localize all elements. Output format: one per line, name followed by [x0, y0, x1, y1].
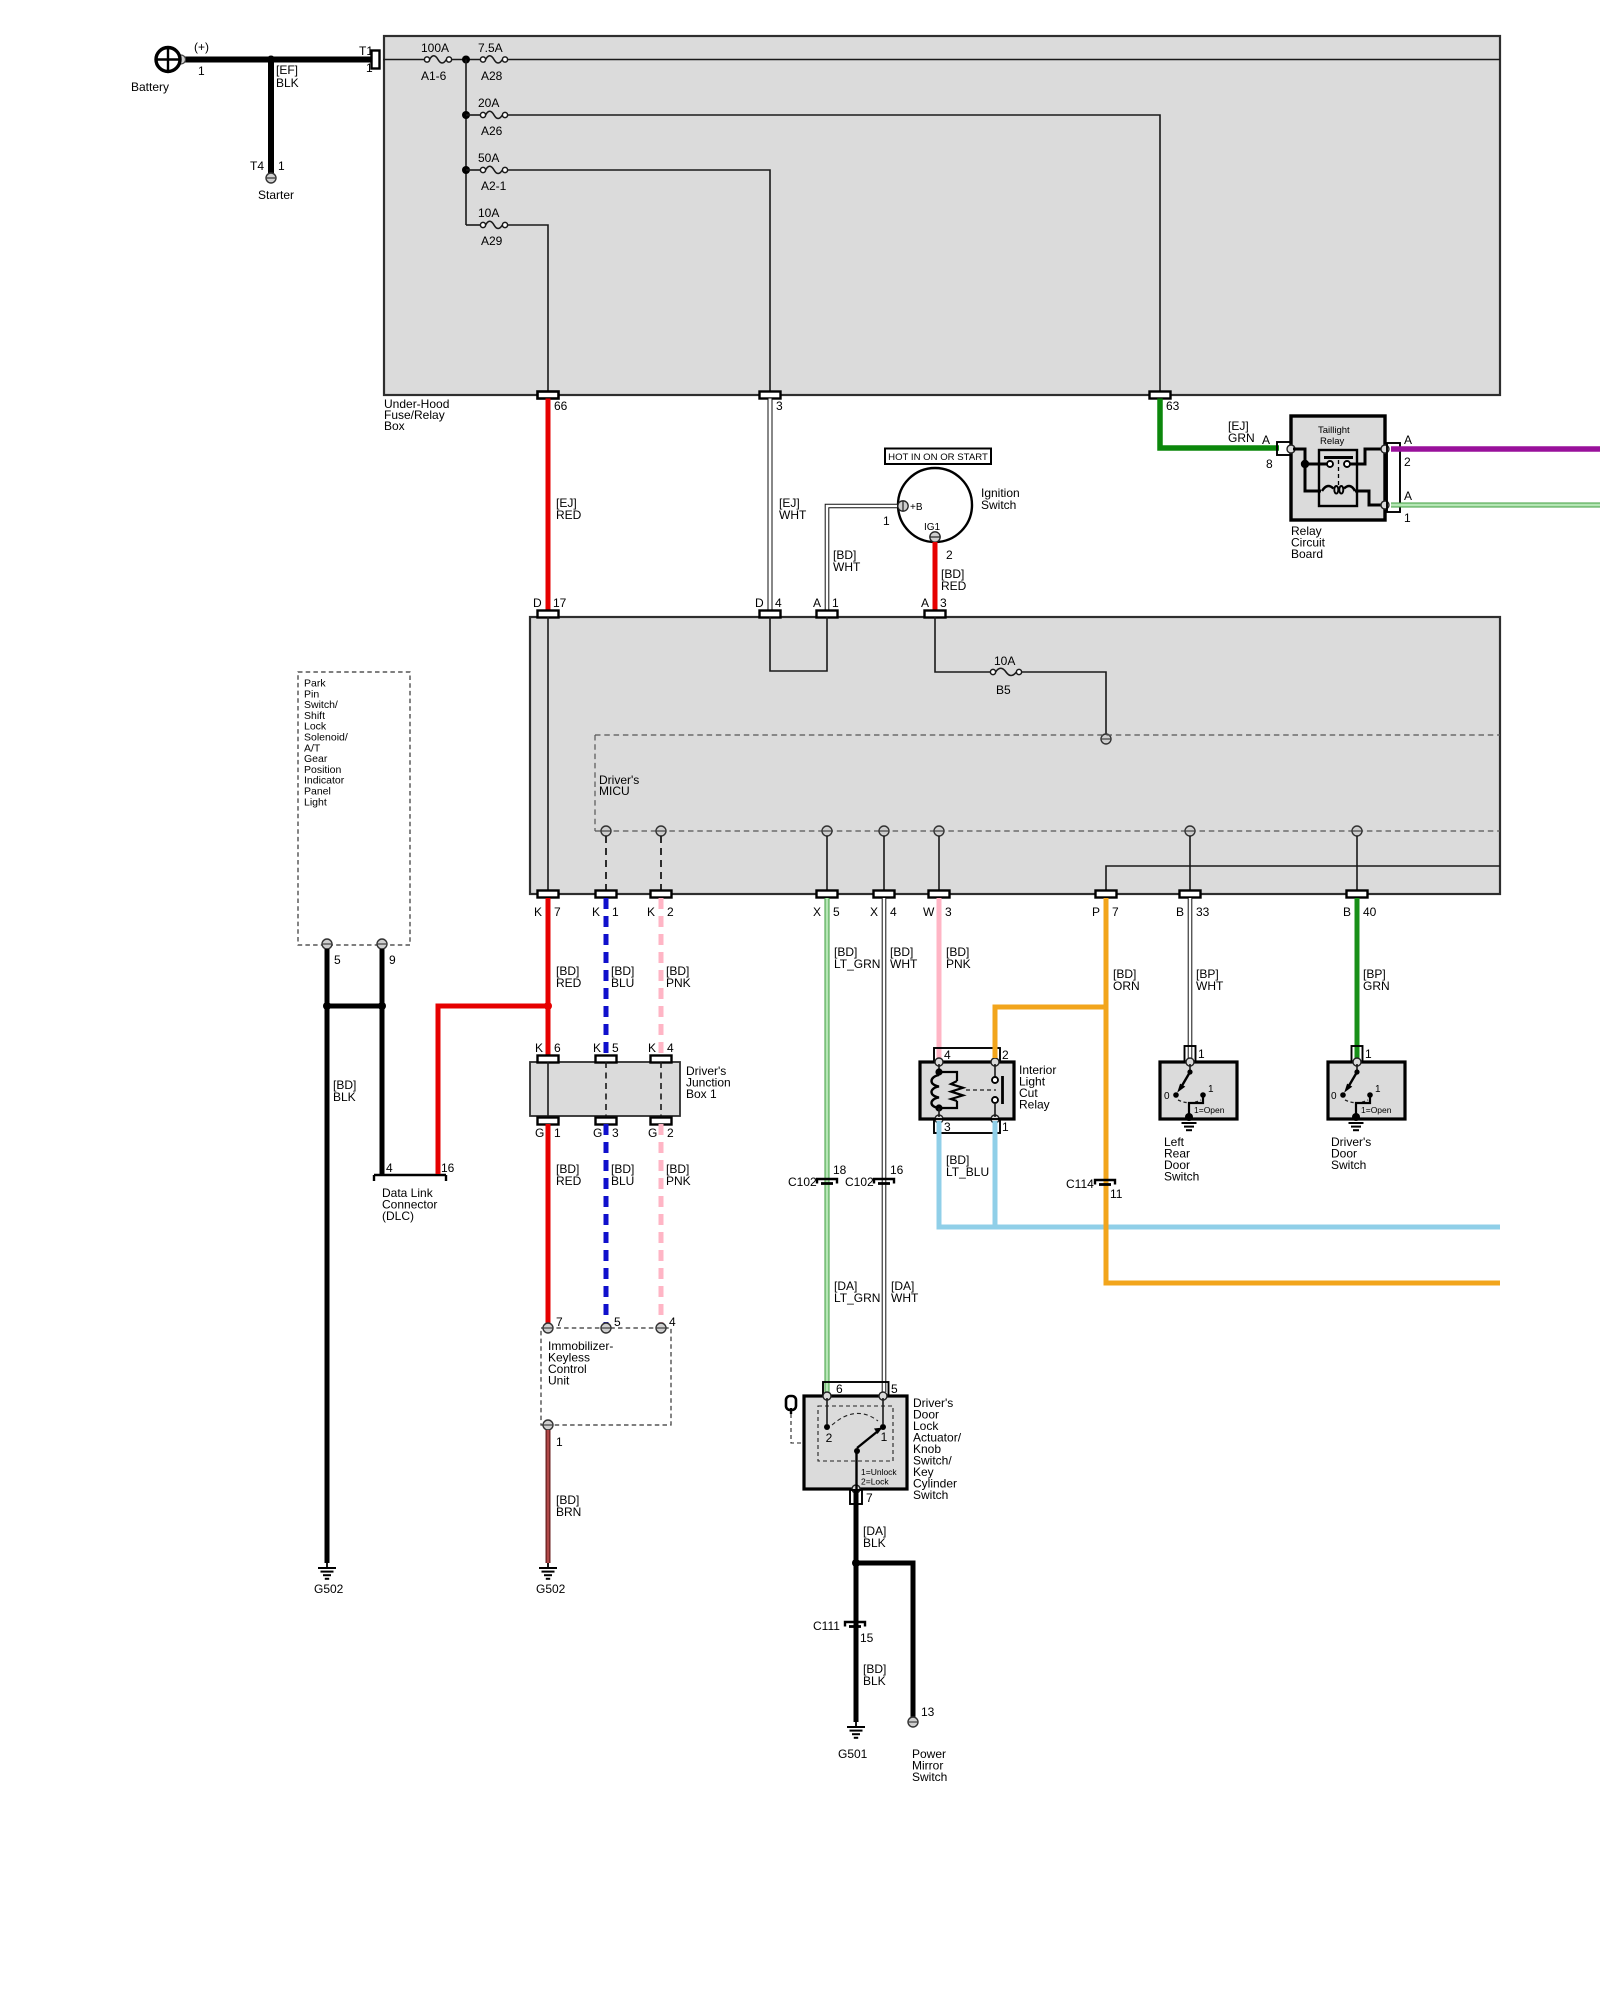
fuse 7.5A A28: [478, 41, 508, 83]
svg-text:(DLC): (DLC): [382, 1209, 414, 1223]
svg-text:2: 2: [1002, 1048, 1009, 1062]
relay output terminals: [1381, 445, 1389, 453]
svg-text:5: 5: [614, 1315, 621, 1329]
svg-text:7: 7: [866, 1491, 873, 1505]
fuse 20A A26: [466, 96, 508, 138]
terminal B33: [1185, 826, 1195, 836]
svg-text:1: 1: [1198, 1047, 1205, 1061]
wire [BD] BRN to G502: [548, 1430, 581, 1563]
svg-text:P: P: [1092, 905, 1100, 919]
fuse 10A A29: [466, 206, 508, 248]
svg-text:B: B: [1343, 905, 1351, 919]
svg-text:C102: C102: [788, 1175, 817, 1189]
svg-text:K: K: [592, 905, 600, 919]
svg-text:0: 0: [1164, 1091, 1170, 1102]
svg-text:WHT: WHT: [1196, 979, 1224, 993]
svg-text:BLK: BLK: [863, 1674, 886, 1688]
svg-text:ORN: ORN: [1113, 979, 1140, 993]
svg-text:PNK: PNK: [946, 957, 971, 971]
svg-text:LT_BLU: LT_BLU: [946, 1165, 989, 1179]
svg-text:1: 1: [554, 1126, 561, 1140]
wire [BD] ORN P7: [995, 898, 1500, 1283]
svg-text:G: G: [648, 1126, 657, 1140]
connector K1: [592, 891, 619, 920]
svg-text:3: 3: [944, 1120, 951, 1134]
junction box internal wires: [547, 1062, 549, 1116]
connector bracket A8: [1277, 442, 1291, 455]
svg-text:B: B: [1176, 905, 1184, 919]
svg-text:C111: C111: [813, 1619, 840, 1633]
fuse 10A B5: [990, 654, 1021, 697]
svg-text:1: 1: [1365, 1047, 1372, 1061]
svg-text:BLK: BLK: [863, 1536, 886, 1550]
knob switch contacts: [824, 1398, 888, 1445]
terminal on MICU boundary: [1101, 734, 1111, 744]
wire LT_BLU relay pin1: [993, 1121, 998, 1227]
wire [BD] LT_BLU relay pin3: [939, 1121, 1500, 1227]
svg-text:Board: Board: [1291, 547, 1323, 561]
svg-text:A26: A26: [481, 124, 503, 138]
svg-text:7: 7: [556, 1315, 563, 1329]
svg-text:66: 66: [554, 399, 568, 413]
fuse 50A A2-1: [466, 151, 508, 193]
connector G3: [593, 1118, 619, 1141]
svg-text:15: 15: [860, 1631, 874, 1645]
connector T1: [359, 44, 380, 75]
MICU internal dashed boundary: [595, 735, 1500, 831]
internal wire D17-K7: [547, 617, 549, 891]
svg-text:WHT: WHT: [833, 560, 861, 574]
svg-text:G502: G502: [314, 1582, 344, 1596]
svg-text:MICU: MICU: [599, 784, 630, 798]
svg-text:7: 7: [1112, 905, 1119, 919]
svg-text:RED: RED: [941, 579, 967, 593]
svg-text:10A: 10A: [994, 654, 1015, 668]
svg-text:K: K: [593, 1041, 601, 1055]
svg-text:Starter: Starter: [258, 188, 294, 202]
park pin switch / shift lock solenoid box: [298, 672, 410, 945]
data link connector DLC: [374, 1161, 455, 1223]
wire [DA] BLK: [856, 1489, 886, 1563]
wire [EJ] WHT fuse 3 to D4: [770, 399, 807, 612]
inline connector C111: [813, 1619, 874, 1645]
svg-text:Switch: Switch: [981, 498, 1016, 512]
connector X4: [870, 891, 897, 920]
connector K7: [534, 891, 561, 920]
svg-text:RED: RED: [556, 976, 582, 990]
svg-text:WHT: WHT: [779, 508, 807, 522]
svg-text:4: 4: [669, 1315, 676, 1329]
svg-text:4: 4: [667, 1041, 674, 1055]
internal wire to X5: [826, 836, 828, 891]
svg-text:16: 16: [890, 1163, 904, 1177]
svg-text:Relay: Relay: [1320, 436, 1345, 447]
svg-text:40: 40: [1363, 905, 1377, 919]
relay pin terminals: [935, 1058, 943, 1066]
svg-text:C114: C114: [1066, 1177, 1094, 1191]
door lock actuator connector 6/5: [823, 1382, 898, 1396]
driver's junction box 1: [530, 1062, 731, 1116]
ground G502: [314, 1563, 344, 1596]
ground at left rear door switch: [1164, 1123, 1199, 1184]
svg-text:6: 6: [554, 1041, 561, 1055]
driver's MICU box: [530, 617, 1500, 894]
relay switch contacts: [992, 1064, 1003, 1117]
svg-text:Switch: Switch: [1164, 1170, 1199, 1184]
connector A3: [921, 596, 947, 618]
wire [BD] WHT X4 down: [884, 898, 919, 1392]
svg-text:K: K: [648, 1041, 656, 1055]
connector A1: [813, 596, 839, 618]
terminal +B: [883, 501, 923, 528]
driver's door lock actuator box: [804, 1396, 962, 1502]
svg-text:7.5A: 7.5A: [478, 41, 503, 55]
ignition switch: [898, 468, 1020, 542]
svg-text:Light: Light: [304, 796, 327, 808]
relay coil: [1322, 486, 1355, 494]
svg-text:K: K: [647, 905, 655, 919]
terminal W3: [934, 826, 944, 836]
svg-text:2: 2: [826, 1431, 833, 1445]
svg-text:GRN: GRN: [1363, 979, 1390, 993]
junction dot: [1301, 460, 1309, 468]
internal wire to K1 dashed: [605, 836, 607, 891]
wire [EF] BLK to starter: [271, 60, 299, 174]
svg-text:PNK: PNK: [666, 1174, 691, 1188]
battery B+ feed wire: [180, 57, 375, 63]
svg-text:2: 2: [1404, 455, 1411, 469]
svg-text:BLK: BLK: [333, 1090, 356, 1104]
wire [BD] PNK K2 to K4: [661, 898, 691, 1056]
wire 10A to exit 66: [508, 225, 548, 392]
svg-text:Box: Box: [384, 419, 405, 433]
svg-text:PNK: PNK: [666, 976, 691, 990]
wire [BD] RED branch to DLC 16: [438, 1006, 548, 1174]
inline connector C114: [1066, 1177, 1123, 1201]
terminal T4 starter: [250, 159, 294, 202]
svg-text:5: 5: [334, 953, 341, 967]
wire B5 to MICU logic: [1022, 672, 1106, 734]
key cylinder symbol: [786, 1396, 804, 1443]
wire [BD] BLK pin5 to G502: [327, 949, 356, 1563]
svg-text:1=Open: 1=Open: [1194, 1105, 1225, 1115]
svg-text:T4: T4: [250, 159, 264, 173]
svg-text:IG1: IG1: [924, 522, 941, 533]
svg-text:1: 1: [881, 1430, 888, 1444]
svg-text:3: 3: [776, 399, 783, 413]
svg-text:WHT: WHT: [891, 1291, 919, 1305]
HOT IN ON OR START tag: [885, 449, 991, 465]
svg-text:16: 16: [441, 1161, 455, 1175]
svg-text:13: 13: [921, 1705, 935, 1719]
svg-text:20A: 20A: [478, 96, 499, 110]
relay coil assembly: [932, 1064, 997, 1117]
svg-text:G502: G502: [536, 1582, 566, 1596]
svg-text:6: 6: [836, 1382, 843, 1396]
svg-text:5: 5: [833, 905, 840, 919]
wire pin9 to DLC: [380, 949, 385, 1174]
terminal K2: [656, 826, 666, 836]
svg-text:K: K: [534, 905, 542, 919]
svg-text:1: 1: [1002, 1120, 1009, 1134]
connector D4: [755, 596, 782, 618]
svg-text:RED: RED: [556, 1174, 582, 1188]
ground G502: [536, 1563, 566, 1596]
svg-text:Taillight: Taillight: [1318, 425, 1350, 436]
under-hood fuse/relay box: [384, 36, 1500, 395]
svg-text:GRN: GRN: [1228, 431, 1255, 445]
wire [BD] RED K7 to K6: [548, 898, 582, 1056]
inline connector C102 pin18: [788, 1163, 847, 1189]
svg-text:X: X: [813, 905, 821, 919]
svg-text:2: 2: [667, 905, 674, 919]
svg-text:W: W: [923, 905, 935, 919]
interior light cut relay connector bottom: [934, 1119, 1009, 1134]
immobilizer-keyless control unit: [541, 1328, 671, 1425]
svg-text:100A: 100A: [421, 41, 449, 55]
connector pin 66: [538, 392, 568, 414]
wire: [452, 59, 481, 61]
terminal B40: [1352, 826, 1362, 836]
connector W3: [923, 891, 952, 920]
wire [EJ] GRN fuse 63 to relay board A8: [1160, 399, 1279, 472]
svg-text:A28: A28: [481, 69, 503, 83]
relay circuit board: [1291, 416, 1385, 561]
svg-text:5: 5: [891, 1382, 898, 1396]
internal wire to W3: [938, 836, 940, 891]
svg-text:2: 2: [667, 1126, 674, 1140]
relay input terminal A8: [1287, 445, 1295, 453]
svg-text:BRN: BRN: [556, 1505, 581, 1519]
wire [EJ] RED fuse 66 to D17: [548, 399, 582, 612]
svg-text:63: 63: [1166, 399, 1180, 413]
svg-text:B5: B5: [996, 683, 1011, 697]
svg-text:8: 8: [1266, 457, 1273, 471]
svg-text:Switch: Switch: [912, 1770, 947, 1784]
interior light cut relay connector top: [934, 1048, 1009, 1062]
svg-text:A1-6: A1-6: [421, 69, 447, 83]
wire A1 light green: [1391, 503, 1600, 508]
wire A2 purple: [1391, 446, 1600, 452]
svg-text:BLU: BLU: [611, 976, 634, 990]
wire branch to power mirror switch: [856, 1563, 913, 1717]
svg-text:1=Open: 1=Open: [1361, 1105, 1392, 1115]
terminal IG1: [924, 522, 953, 562]
svg-text:10A: 10A: [478, 206, 499, 220]
wire [BD] BLU K1 to K5: [606, 898, 634, 1056]
driver's door switch: [1328, 1058, 1405, 1121]
svg-text:1: 1: [556, 1435, 563, 1449]
connector K2: [647, 891, 674, 920]
relay internal wiring: [1293, 449, 1321, 491]
svg-text:G: G: [593, 1126, 602, 1140]
terminal X4: [879, 826, 889, 836]
svg-text:9: 9: [389, 953, 396, 967]
internal wire A3 to fuse B5: [935, 617, 990, 672]
svg-text:17: 17: [553, 596, 567, 610]
svg-text:1: 1: [883, 514, 890, 528]
wire [BD] LT_GRN X5 down: [827, 898, 880, 1392]
svg-text:(+): (+): [194, 40, 209, 54]
terminal K1: [601, 826, 611, 836]
svg-text:LT_GRN: LT_GRN: [834, 957, 880, 971]
wire [BD] WHT +B to A1: [827, 506, 897, 611]
svg-text:Switch: Switch: [913, 1488, 948, 1502]
switch lever: [854, 1428, 897, 1490]
svg-text:1: 1: [1208, 1084, 1214, 1095]
terminal 4: [656, 1315, 676, 1333]
terminal 5: [601, 1315, 621, 1333]
wire [BD] PNK W3 to relay pin4: [939, 898, 971, 1058]
terminal 5: [322, 939, 341, 967]
fuse 100A A1-6: [421, 41, 452, 83]
wire main to G501: [854, 1563, 859, 1722]
node 50A branch: [462, 166, 470, 174]
svg-text:4: 4: [944, 1048, 951, 1062]
svg-text:Battery: Battery: [131, 80, 169, 94]
wire [BD] BLU G3 to immobilizer 5: [606, 1124, 634, 1323]
svg-text:1: 1: [278, 159, 285, 173]
svg-text:3: 3: [612, 1126, 619, 1140]
svg-text:WHT: WHT: [890, 957, 918, 971]
ground G501: [838, 1722, 868, 1761]
terminal X5: [822, 826, 832, 836]
actuator pin 7: [850, 1490, 873, 1505]
svg-text:Unit: Unit: [548, 1374, 570, 1388]
svg-text:0: 0: [1331, 1091, 1337, 1102]
connector P7: [1092, 891, 1119, 920]
connector K4: [648, 1041, 674, 1063]
interior light cut relay: [920, 1062, 1056, 1119]
wire 20A to exit 63: [508, 115, 1160, 392]
svg-text:A: A: [921, 596, 929, 610]
wire [BD] BLK label: [863, 1662, 886, 1688]
internal wire to B40: [1356, 836, 1358, 891]
svg-text:1: 1: [1404, 511, 1411, 525]
power mirror switch terminal 13: [908, 1705, 947, 1784]
connector K5: [593, 1041, 619, 1063]
svg-text:11: 11: [1110, 1187, 1123, 1201]
terminal 1: [543, 1420, 563, 1449]
connector K6: [535, 1041, 561, 1063]
svg-text:HOT IN ON OR START: HOT IN ON OR START: [888, 452, 988, 463]
svg-text:A: A: [1262, 433, 1270, 447]
svg-text:33: 33: [1196, 905, 1210, 919]
svg-text:LT_GRN: LT_GRN: [834, 1291, 880, 1305]
svg-text:RED: RED: [556, 508, 582, 522]
svg-text:2: 2: [946, 548, 953, 562]
wire A28 output to right edge: [508, 59, 1500, 61]
wire bus inside fuse box: [383, 59, 425, 61]
svg-text:1: 1: [198, 64, 205, 78]
wire bridge 5-9: [327, 1004, 382, 1009]
driver's door switch pin 1: [1352, 1046, 1373, 1062]
actuator pin terminals: [823, 1392, 831, 1400]
svg-text:D: D: [755, 596, 764, 610]
wire [BP] WHT B33 to left rear door switch: [1190, 898, 1224, 1058]
internal wire to X4: [883, 836, 885, 891]
connector B40: [1343, 891, 1377, 920]
junction dot: [323, 1002, 331, 1010]
connector pin 63: [1150, 392, 1180, 414]
svg-text:G: G: [535, 1126, 544, 1140]
node 20A branch: [462, 111, 470, 119]
svg-text:BLK: BLK: [276, 76, 299, 90]
svg-text:Switch: Switch: [1331, 1158, 1366, 1172]
connector D17: [533, 596, 567, 618]
svg-text:K: K: [535, 1041, 543, 1055]
svg-text:[EF]: [EF]: [276, 63, 298, 77]
wire [BD] RED G1 to immobilizer 7: [548, 1124, 582, 1323]
battery: [131, 48, 186, 95]
svg-text:Box 1: Box 1: [686, 1087, 717, 1101]
internal wire D4-A1: [770, 617, 827, 671]
svg-text:1: 1: [1375, 1084, 1381, 1095]
wire [BP] GRN B40 to driver's door switch: [1357, 898, 1390, 1058]
svg-text:7: 7: [554, 905, 561, 919]
connector B33: [1176, 891, 1210, 920]
svg-text:1=Unlock: 1=Unlock: [861, 1467, 897, 1477]
svg-text:C102: C102: [845, 1175, 874, 1189]
relay switch contacts: [1324, 458, 1353, 487]
relay output wiring: [1350, 449, 1384, 464]
connector G1: [535, 1118, 561, 1141]
svg-text:4: 4: [775, 596, 782, 610]
svg-text:BLU: BLU: [611, 1174, 634, 1188]
wire 50A to exit 3: [508, 170, 770, 392]
svg-text:A: A: [1404, 489, 1412, 503]
taillight relay inner box: [1319, 450, 1357, 506]
junction dot: [378, 1002, 386, 1010]
internal wire to B33: [1189, 836, 1191, 891]
svg-text:50A: 50A: [478, 151, 499, 165]
svg-text:+B: +B: [910, 502, 923, 513]
svg-text:Relay: Relay: [1019, 1098, 1050, 1112]
internal wire to P7: [1106, 866, 1500, 891]
wire [BD] PNK G2 to immobilizer 4: [661, 1124, 691, 1323]
svg-text:A2-1: A2-1: [481, 179, 507, 193]
connector X5: [813, 891, 840, 920]
wire riser: [465, 60, 467, 226]
terminal 9: [377, 939, 396, 967]
connector G2: [648, 1118, 674, 1141]
output connector bracket A2/A1: [1387, 433, 1412, 525]
svg-text:X: X: [870, 905, 878, 919]
left rear door switch: [1160, 1058, 1237, 1121]
svg-text:3: 3: [945, 905, 952, 919]
internal wire to K2 dashed: [660, 836, 662, 891]
svg-text:A: A: [813, 596, 821, 610]
junction dot red: [544, 1002, 552, 1010]
svg-text:5: 5: [612, 1041, 619, 1055]
svg-text:4: 4: [386, 1161, 393, 1175]
svg-text:3: 3: [940, 596, 947, 610]
node after 100A fuse: [462, 56, 470, 64]
svg-text:A29: A29: [481, 234, 503, 248]
svg-text:D: D: [533, 596, 542, 610]
wire [BD] RED IG1 to A3: [935, 542, 967, 611]
actuator inner dashed box: [818, 1406, 893, 1461]
svg-text:A: A: [1404, 433, 1412, 447]
svg-text:2=Lock: 2=Lock: [861, 1477, 889, 1487]
terminal 7: [543, 1315, 563, 1333]
node junction on battery feed: [267, 56, 275, 64]
junction dot: [852, 1559, 860, 1567]
connector pin 3: [760, 392, 784, 414]
ground at driver's door switch: [1331, 1123, 1371, 1172]
svg-text:1: 1: [832, 596, 839, 610]
svg-text:4: 4: [890, 905, 897, 919]
